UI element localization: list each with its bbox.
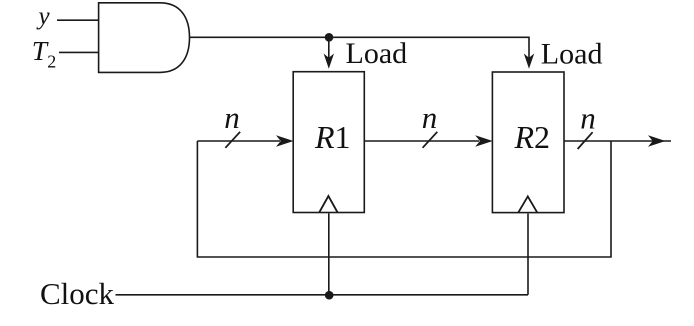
wire load drop to R1	[328, 37, 330, 60]
wire data output of R2	[564, 140, 671, 142]
bus slash output	[578, 132, 593, 149]
arrowhead data input R1	[276, 135, 294, 146]
register R2 box	[492, 72, 564, 213]
svg-text:Load: Load	[541, 38, 603, 71]
wire clock horizontal	[116, 294, 529, 296]
bus slash R1 to R2	[423, 132, 438, 148]
wire input y	[57, 19, 99, 21]
arrowhead load R1	[324, 54, 334, 69]
wire data R1 to R2	[364, 140, 479, 142]
arrowhead load R2	[524, 54, 534, 69]
node clock junction dot	[325, 291, 334, 300]
AND gate U1	[99, 3, 190, 73]
arrowhead data input R2	[475, 135, 493, 146]
svg-text:n: n	[224, 100, 240, 135]
clock wedge R2	[518, 196, 537, 212]
register R1 box	[293, 72, 364, 213]
clock wedge R1	[319, 196, 337, 213]
svg-text:n: n	[580, 101, 596, 136]
wire clock to R1 wedge	[328, 213, 330, 294]
svg-text:2: 2	[47, 52, 56, 72]
svg-text:R1: R1	[314, 119, 351, 155]
svg-text:T: T	[32, 35, 49, 66]
svg-text:Clock: Clock	[40, 276, 115, 311]
node junction dot on load line	[325, 33, 334, 42]
svg-text:y: y	[35, 3, 50, 30]
bus slash input R1	[225, 132, 240, 148]
svg-text:Load: Load	[346, 37, 408, 70]
wire data input to R1	[197, 140, 280, 142]
wire AND output to Load of R2	[190, 37, 530, 60]
svg-text:n: n	[422, 100, 438, 135]
wire feedback loop from output down and back to R1 input	[197, 141, 611, 257]
wire clock to R2 wedge	[527, 214, 529, 295]
arrowhead output	[648, 135, 666, 146]
wire input T2	[59, 51, 99, 53]
svg-text:R2: R2	[514, 119, 551, 155]
